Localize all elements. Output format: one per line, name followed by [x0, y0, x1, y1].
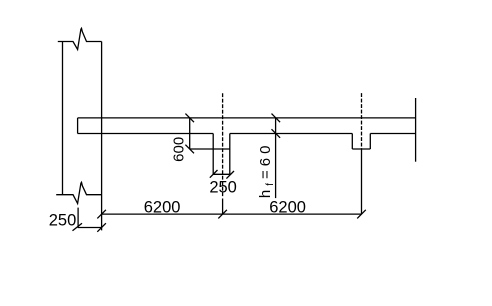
svg-text:250: 250	[209, 178, 237, 196]
svg-text:600: 600	[171, 137, 188, 162]
svg-text:6200: 6200	[144, 199, 181, 217]
svg-text:250: 250	[49, 212, 77, 230]
svg-text:hf=60: hf=60	[257, 142, 276, 199]
svg-text:6200: 6200	[269, 199, 306, 217]
